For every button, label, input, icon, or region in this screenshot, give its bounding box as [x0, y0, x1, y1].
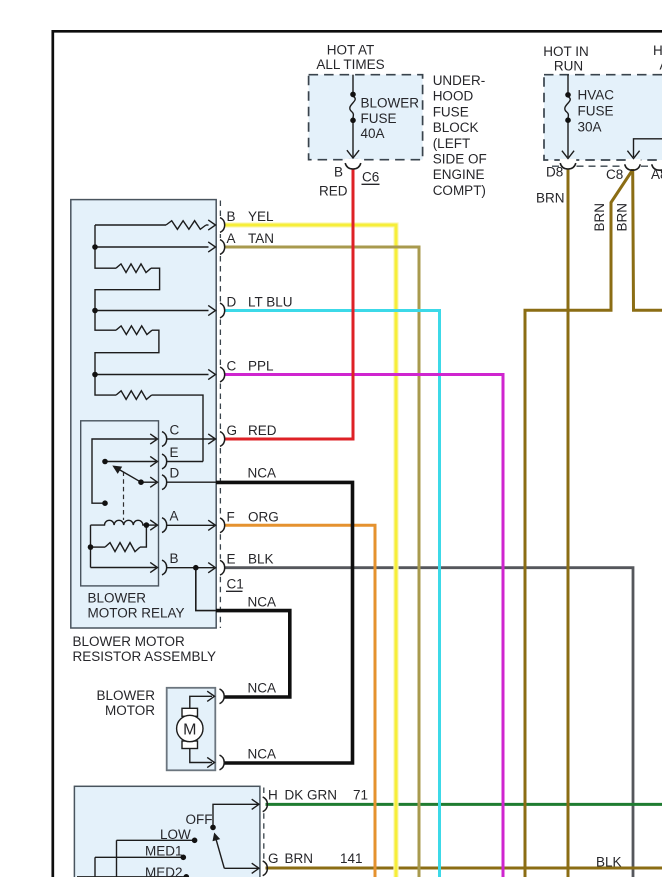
svg-text:A8: A8 — [651, 167, 662, 182]
svg-text:BLOCK: BLOCK — [433, 120, 479, 135]
svg-text:RUN: RUN — [554, 59, 583, 74]
svg-text:FUSE: FUSE — [361, 111, 397, 126]
svg-text:C6: C6 — [362, 170, 379, 185]
svg-text:B: B — [227, 209, 236, 224]
svg-text:40A: 40A — [361, 126, 385, 141]
svg-text:MOTOR RELAY: MOTOR RELAY — [88, 606, 185, 621]
svg-text:FUSE: FUSE — [578, 104, 614, 119]
svg-text:BRN: BRN — [285, 851, 314, 866]
svg-text:HOT IN: HOT IN — [543, 44, 589, 59]
svg-text:C8: C8 — [606, 167, 623, 182]
svg-text:TAN: TAN — [248, 231, 274, 246]
svg-text:FUSE: FUSE — [433, 104, 469, 119]
svg-text:RED: RED — [319, 184, 348, 199]
svg-text:C: C — [170, 423, 180, 438]
svg-text:RESISTOR ASSEMBLY: RESISTOR ASSEMBLY — [73, 649, 217, 664]
svg-text:ENGINE: ENGINE — [433, 167, 485, 182]
svg-text:COMPT): COMPT) — [433, 183, 486, 198]
svg-text:MOTOR: MOTOR — [105, 703, 155, 718]
svg-text:BLK: BLK — [596, 855, 622, 870]
svg-text:NCA: NCA — [248, 747, 277, 762]
svg-text:ORG: ORG — [248, 509, 279, 524]
svg-text:MED2: MED2 — [145, 865, 183, 877]
svg-text:BRN: BRN — [592, 203, 607, 232]
svg-text:M: M — [183, 722, 196, 739]
svg-text:141: 141 — [340, 851, 363, 866]
svg-text:G: G — [227, 423, 238, 438]
svg-text:(LEFT: (LEFT — [433, 136, 471, 151]
svg-text:DK GRN: DK GRN — [285, 788, 338, 803]
svg-text:BRN: BRN — [536, 191, 565, 206]
svg-text:B: B — [170, 551, 179, 566]
svg-text:C: C — [227, 359, 237, 374]
svg-text:A: A — [227, 231, 236, 246]
svg-text:NCA: NCA — [248, 594, 277, 609]
svg-text:BLOWER: BLOWER — [88, 591, 147, 606]
svg-text:D: D — [227, 295, 237, 310]
svg-text:HVAC: HVAC — [578, 88, 615, 103]
svg-text:SIDE OF: SIDE OF — [433, 152, 487, 167]
svg-text:BLK: BLK — [248, 552, 274, 567]
svg-text:30A: 30A — [578, 120, 602, 135]
svg-text:MED1: MED1 — [145, 844, 183, 859]
svg-text:D8: D8 — [546, 165, 563, 180]
svg-text:OFF: OFF — [186, 812, 213, 827]
svg-text:E: E — [170, 445, 179, 460]
svg-text:H: H — [268, 788, 278, 803]
svg-text:71: 71 — [353, 788, 368, 803]
svg-text:HOT AT: HOT AT — [653, 43, 662, 58]
svg-text:G: G — [268, 851, 279, 866]
svg-text:UNDER-: UNDER- — [433, 73, 486, 88]
svg-text:D: D — [170, 466, 180, 481]
svg-text:NCA: NCA — [248, 466, 277, 481]
svg-text:F: F — [227, 509, 235, 524]
svg-text:BLOWER MOTOR: BLOWER MOTOR — [73, 634, 186, 649]
svg-text:NCA: NCA — [248, 680, 277, 695]
svg-text:A: A — [170, 509, 179, 524]
svg-text:YEL: YEL — [248, 209, 274, 224]
svg-text:ALL TIMES: ALL TIMES — [316, 57, 384, 72]
svg-text:BLOWER: BLOWER — [361, 96, 420, 111]
svg-text:HOT AT: HOT AT — [327, 43, 375, 58]
svg-text:BLOWER: BLOWER — [96, 688, 155, 703]
svg-text:B: B — [334, 165, 343, 180]
svg-text:LOW: LOW — [160, 827, 191, 842]
svg-text:E: E — [227, 552, 236, 567]
svg-text:LT BLU: LT BLU — [248, 295, 293, 310]
svg-text:C1: C1 — [227, 577, 244, 592]
svg-text:PPL: PPL — [248, 359, 274, 374]
svg-text:BRN: BRN — [615, 203, 630, 232]
svg-text:RED: RED — [248, 423, 277, 438]
svg-text:HOOD: HOOD — [433, 89, 474, 104]
